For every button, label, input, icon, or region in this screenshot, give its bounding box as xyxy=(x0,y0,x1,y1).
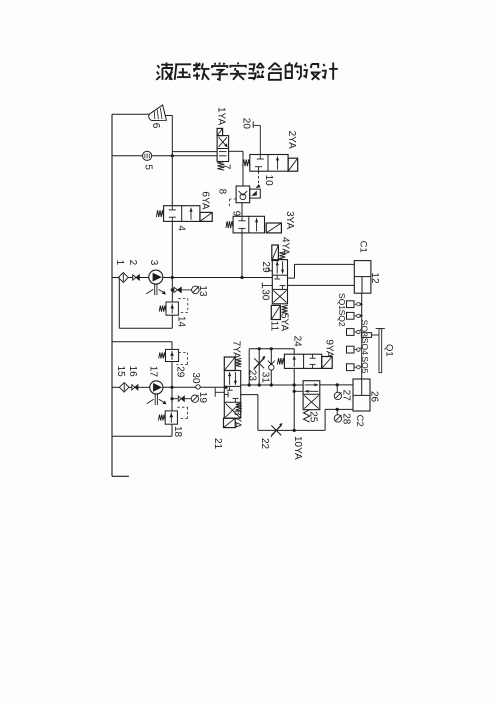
svg-text:8: 8 xyxy=(217,189,228,195)
node: gauge 13 branch xyxy=(171,288,174,291)
valve 2YA solenoid box xyxy=(288,158,298,171)
wire: left tank rail xyxy=(111,114,113,476)
wire xyxy=(128,277,132,279)
svg-text:SQ2: SQ2 xyxy=(337,310,347,327)
svg-text:16: 16 xyxy=(127,366,138,378)
air breather 6 xyxy=(147,105,167,124)
wire xyxy=(139,277,148,279)
svg-text:14: 14 xyxy=(175,316,186,328)
check valve for gauge 19 xyxy=(178,396,181,401)
node: pump line at valve 21 xyxy=(224,386,227,389)
svg-text:SQ1: SQ1 xyxy=(337,293,347,310)
wire: dog block down to cylinder C2 xyxy=(361,337,363,379)
cylinder C1 xyxy=(354,261,371,294)
module 24 left branch xyxy=(248,349,250,385)
svg-text:8YA: 8YA xyxy=(232,410,243,428)
wire: valve 21 B port down to throttle 22 line xyxy=(241,394,258,396)
wire: breather to mid rail xyxy=(165,115,172,117)
svg-text:6YA: 6YA xyxy=(200,191,211,209)
wire: valve 7 to pilot check 8 xyxy=(229,150,243,152)
svg-text:7: 7 xyxy=(221,164,232,170)
svg-text:5: 5 xyxy=(143,164,154,170)
gauge 5 (circle with M) xyxy=(143,151,152,160)
solenoid valve 2YA body xyxy=(250,155,288,172)
valve 11 bottom solenoid 5YA xyxy=(271,305,280,319)
valve 25 arrows top square xyxy=(305,384,319,386)
wire: upper parallel line to valve 7 xyxy=(172,151,217,153)
limit switch SQ4 xyxy=(347,346,355,353)
wire: gauge 5 line (tank to valve 7) xyxy=(112,155,217,157)
dog block on rod xyxy=(361,333,371,338)
node: junction relief 29 branch xyxy=(170,386,173,389)
check valve 2 xyxy=(133,275,136,280)
valve 9 spring xyxy=(226,221,233,228)
filter 15 xyxy=(119,383,129,393)
valve 9 solenoid box xyxy=(266,223,281,233)
solenoid valve U7 1YA solenoid box xyxy=(217,128,223,135)
valve 4 arrow right square xyxy=(190,208,192,220)
wire: module to valve 9YA xyxy=(293,349,295,354)
valve 11 bottom spring xyxy=(282,305,288,313)
svg-text:2: 2 xyxy=(127,260,138,266)
svg-text:31: 31 xyxy=(260,372,271,384)
solenoid valve 9 3YA body xyxy=(233,216,264,233)
wire: valve 9YA down rail xyxy=(293,368,295,430)
wire: return line to suction xyxy=(119,327,172,329)
gauge 27 xyxy=(334,392,341,399)
valve 4 blocked marks left square xyxy=(171,206,173,210)
svg-text:4: 4 xyxy=(176,225,187,231)
valve 21 bottom solenoid 8YA xyxy=(224,418,236,427)
svg-text:27: 27 xyxy=(340,390,351,402)
svg-text:C2: C2 xyxy=(354,415,365,427)
filter 1 xyxy=(118,273,128,283)
svg-text:3: 3 xyxy=(148,260,159,266)
valve 7 body (2-position) xyxy=(217,136,229,162)
valve 25 spring bottom xyxy=(303,410,309,423)
svg-text:30: 30 xyxy=(190,372,201,384)
svg-text:18: 18 xyxy=(172,426,183,438)
svg-text:4YA: 4YA xyxy=(280,237,291,255)
valve 21 top spring xyxy=(235,358,241,366)
svg-text:9: 9 xyxy=(231,211,242,217)
port 29 stub on valve 11 xyxy=(269,270,273,272)
svg-text:30: 30 xyxy=(259,289,270,301)
wire: valve 25 to C2 cap line xyxy=(320,384,353,386)
svg-text:22: 22 xyxy=(259,438,270,450)
valve 21 bottom spring xyxy=(236,403,242,411)
check 8 pilot box xyxy=(250,189,261,198)
three position valve 11 top solenoid 4YA xyxy=(272,245,279,261)
valve 21 arrows top square xyxy=(229,372,231,385)
wire: pump 17 output to valve 21 xyxy=(163,386,224,388)
svg-text:2YA: 2YA xyxy=(286,131,297,149)
wire: mid rail upper (breather down to valve 4) xyxy=(171,116,173,207)
gauge 13 xyxy=(192,286,200,294)
valve 9YA arrow left square xyxy=(293,356,295,367)
solenoid valve 4 6YA body xyxy=(164,206,200,222)
valve 9YA spring xyxy=(277,358,284,364)
wire: upper pump line xyxy=(112,277,118,279)
cylinder C2 xyxy=(353,379,370,411)
three position valve 21 top solenoid 7YA xyxy=(224,357,235,371)
throttle valve 23 branch xyxy=(258,349,260,385)
throttle valve 22 xyxy=(271,425,281,435)
wire: relief 14 to return line xyxy=(171,315,173,328)
wire: port 20 to valve 2YA xyxy=(253,124,260,126)
svg-text:24: 24 xyxy=(292,336,303,348)
valve 11 cross square xyxy=(273,290,286,302)
limit switch SQ5 xyxy=(347,364,355,371)
valve 7 arrows top square xyxy=(219,137,227,147)
relief valve 18 xyxy=(165,411,177,424)
wire: valve 9 down to pump line xyxy=(241,233,243,278)
solenoid valve 25 10YA body xyxy=(303,381,320,410)
svg-text:25: 25 xyxy=(308,411,319,423)
valve 9 blocked marks left square xyxy=(241,216,243,221)
node: gauge 27 branch xyxy=(336,383,339,386)
node: gauge 28 branch xyxy=(336,408,339,411)
wire: valve 11 B port to cylinder C1 rod side xyxy=(288,284,355,286)
wire: module lower line xyxy=(249,384,303,386)
relief 29 pilot dashed xyxy=(179,352,188,354)
valve 9 arrow right square xyxy=(256,218,258,231)
wire: mid rail valve4 to pump line xyxy=(171,221,173,277)
quick coupling 30 on pump 17 line xyxy=(196,385,200,389)
svg-text:29: 29 xyxy=(174,366,185,378)
valve 25 cross square xyxy=(304,395,319,408)
svg-text:1: 1 xyxy=(114,260,125,266)
pump 3 xyxy=(149,270,163,284)
svg-text:12: 12 xyxy=(369,272,380,284)
pilot operated check valve 8 xyxy=(236,186,250,203)
wire: relief 18 to bottom return xyxy=(171,424,173,436)
wire: pump 3 output to valve 11 xyxy=(163,277,272,279)
wire xyxy=(129,386,132,388)
wire: C2 rod line corner down xyxy=(324,409,326,430)
svg-text:29: 29 xyxy=(260,261,271,273)
lower circuit top return line xyxy=(112,341,172,343)
svg-text:Q1: Q1 xyxy=(384,344,395,357)
svg-text:1YA: 1YA xyxy=(216,107,227,125)
svg-text:7YA: 7YA xyxy=(230,341,241,359)
node: junction valve 9 branch xyxy=(240,276,243,279)
title text: hydraulic teaching test-bench design (CJK strokes) xyxy=(156,63,337,80)
wire xyxy=(138,386,150,388)
wire: valve 21 A port to module line xyxy=(241,384,250,386)
scale Q1 xyxy=(379,329,382,373)
check valve 31 branch xyxy=(270,349,272,385)
valve 2YA arrow right square xyxy=(277,156,279,169)
svg-text:28: 28 xyxy=(340,413,351,425)
node: junction gauge-5 line xyxy=(171,154,174,157)
wire: tank rail bottom foot xyxy=(112,475,129,477)
wire: dog block to scale Q1 xyxy=(372,334,379,336)
pilot line 10 (dashed) from 2YA to check 8 xyxy=(258,171,260,183)
valve 21 cross square xyxy=(225,403,239,417)
wire: relief 29 to pump 17 line xyxy=(171,362,173,388)
svg-text:6: 6 xyxy=(150,123,161,129)
limit switch SQ3 xyxy=(347,329,355,336)
relief 18 pilot dashed xyxy=(177,406,187,408)
node: gauge 19 branch xyxy=(170,397,173,400)
svg-text:10YA: 10YA xyxy=(292,436,303,460)
svg-text:17: 17 xyxy=(148,366,159,378)
wire: lower pump suction line xyxy=(112,386,120,388)
valve 11 top spring xyxy=(279,252,285,260)
svg-text:C1: C1 xyxy=(358,241,369,253)
svg-text:3YA: 3YA xyxy=(284,211,295,229)
port 30 capped stub on valve 11 xyxy=(262,285,272,287)
valve 11 body (3-position) xyxy=(272,260,287,304)
svg-text:13: 13 xyxy=(197,285,208,297)
svg-text:23: 23 xyxy=(247,370,258,382)
wire: mid rail down to relief 14 xyxy=(171,278,173,303)
svg-text:19: 19 xyxy=(197,392,208,404)
relief valve 29 xyxy=(166,349,179,361)
relief 14 pilot dashed xyxy=(178,297,187,299)
cylinder C1 piston rod xyxy=(361,277,363,294)
wire: valve 11 A port to cylinder C1 cap xyxy=(288,277,295,279)
capped test port 19 stub at valve 21 xyxy=(214,388,216,397)
svg-text:21: 21 xyxy=(212,438,223,450)
check valve 16 xyxy=(132,385,135,390)
wire: bottom line with throttle 22 xyxy=(258,429,325,431)
wire: stub to valve 25 second port xyxy=(294,390,303,392)
node: junction mid rail / pump line xyxy=(171,276,174,279)
svg-text:10: 10 xyxy=(263,175,274,187)
valve 7 spring xyxy=(217,162,224,171)
gauge 19 xyxy=(191,395,198,402)
wire: C1 rod to dog block xyxy=(361,293,363,333)
valve 11 arrows top square xyxy=(276,261,278,273)
limit switch SQ2 xyxy=(347,312,355,319)
valve 9YA solenoid box xyxy=(322,357,333,369)
gauge 28 xyxy=(334,415,341,422)
valve 2YA spring xyxy=(243,159,250,166)
valve 4 solenoid box xyxy=(200,212,212,221)
valve 4 spring xyxy=(156,210,163,217)
check 8 drain dashed xyxy=(230,198,237,200)
valve 21 body (3-position) xyxy=(224,371,240,419)
solenoid valve 9YA body xyxy=(284,354,321,368)
relief valve 14 xyxy=(166,302,178,315)
svg-text:9YA: 9YA xyxy=(323,339,334,357)
valve 2YA blocked marks left square xyxy=(259,155,261,160)
valve 7 bars bottom square xyxy=(219,151,227,153)
wire: top line to breather xyxy=(112,113,150,115)
wire: C2 rod side line xyxy=(325,408,353,410)
limit switch SQ1 xyxy=(347,301,355,308)
wire: check 8 to valve 9 xyxy=(241,203,243,217)
valve 11 center square blocked xyxy=(276,275,278,279)
speed module 24 top line xyxy=(249,348,294,350)
svg-text:20: 20 xyxy=(241,118,252,130)
svg-text:11: 11 xyxy=(269,321,280,332)
valve 21 center square blocked xyxy=(229,386,231,390)
pump 17 xyxy=(150,381,163,394)
valve 9YA blocked marks right square xyxy=(312,354,314,358)
check valve for gauge 13 xyxy=(174,287,178,292)
svg-text:26: 26 xyxy=(368,391,379,403)
svg-text:15: 15 xyxy=(115,366,126,378)
